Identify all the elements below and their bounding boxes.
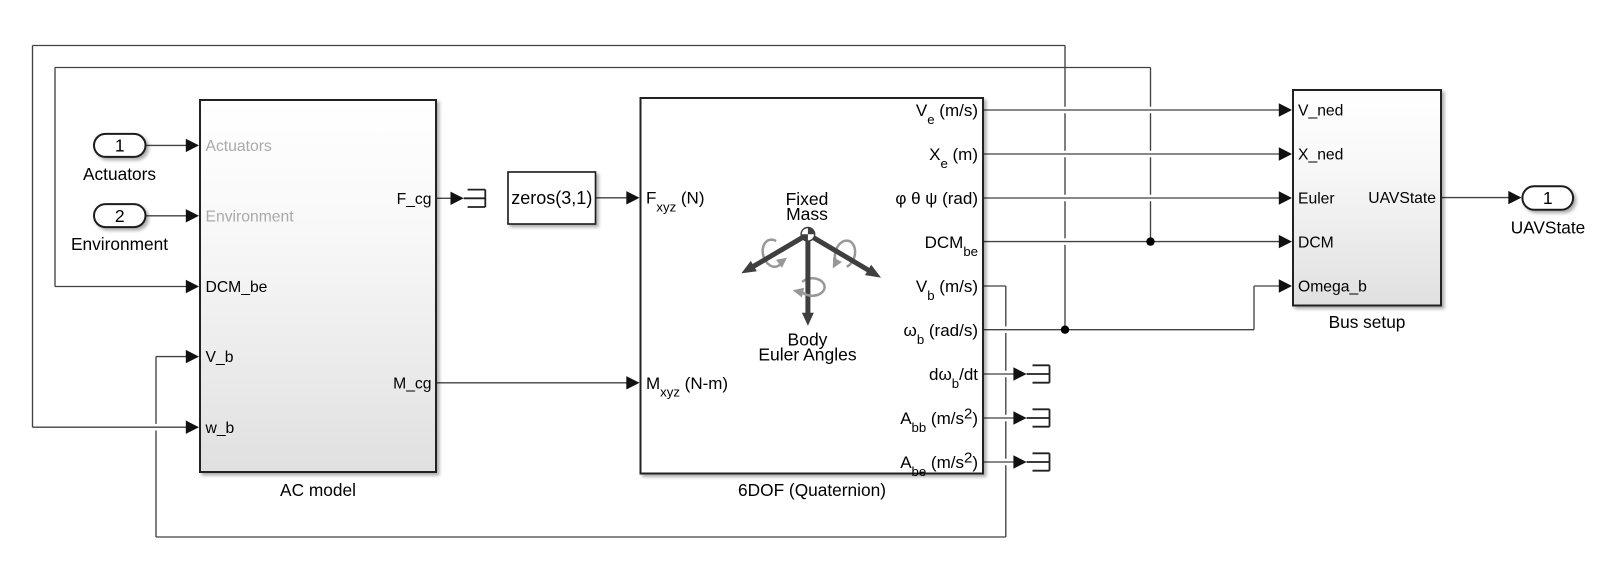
svg-text:F_cg: F_cg [397, 191, 432, 208]
svg-text:AC model: AC model [280, 480, 356, 500]
svg-text:Bus setup: Bus setup [1329, 312, 1406, 332]
svg-text:w_b: w_b [205, 420, 235, 437]
svg-text:Omega_b: Omega_b [1298, 279, 1367, 296]
svg-text:UAVState: UAVState [1368, 190, 1436, 207]
svg-text:X_ned: X_ned [1298, 147, 1343, 164]
svg-text:Environment: Environment [206, 208, 295, 225]
svg-text:DCM: DCM [1298, 235, 1334, 252]
svg-text:Environment: Environment [71, 234, 168, 254]
svg-text:V_b: V_b [206, 349, 234, 366]
svg-text:1: 1 [1543, 188, 1553, 208]
svg-text:Mass: Mass [786, 204, 828, 224]
svg-text:2: 2 [115, 206, 125, 226]
svg-text:V_ned: V_ned [1298, 103, 1343, 120]
svg-text:Euler: Euler [1298, 191, 1335, 208]
svg-text:1: 1 [115, 136, 125, 156]
svg-text:zeros(3,1): zeros(3,1) [511, 188, 592, 208]
svg-text:DCM_be: DCM_be [206, 279, 268, 296]
svg-text:Actuators: Actuators [206, 138, 272, 155]
svg-text:φ θ ψ (rad): φ θ ψ (rad) [895, 189, 978, 208]
svg-text:UAVState: UAVState [1511, 218, 1586, 238]
svg-text:Actuators: Actuators [83, 164, 156, 184]
svg-text:M_cg: M_cg [393, 375, 431, 392]
svg-text:Euler Angles: Euler Angles [758, 344, 857, 364]
svg-text:6DOF (Quaternion): 6DOF (Quaternion) [738, 480, 886, 500]
